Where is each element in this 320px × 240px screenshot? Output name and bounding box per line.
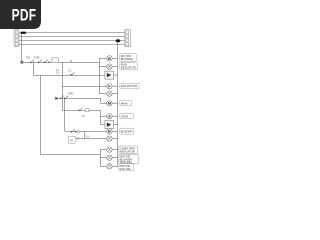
svg-text:TB1: TB1 (26, 58, 31, 60)
svg-text:INDICATOR: INDICATOR (121, 66, 136, 70)
svg-text:BLOWER: BLOWER (121, 57, 133, 61)
svg-text:FAN MOTOR: FAN MOTOR (121, 84, 138, 88)
svg-text:MAIN: MAIN (121, 101, 128, 105)
svg-text:TVR2: TVR2 (34, 58, 41, 60)
svg-text:BUZZER: BUZZER (121, 130, 132, 134)
svg-text:PDF: PDF (12, 7, 37, 25)
svg-text:TVR2: TVR2 (68, 94, 75, 96)
svg-text:B: B (108, 57, 111, 61)
svg-text:S: S (108, 115, 111, 119)
svg-text:STAR: STAR (121, 114, 128, 118)
svg-text:INDICATOR: INDICATOR (120, 150, 135, 154)
svg-text:B: B (108, 130, 111, 134)
svg-text:FAN IND: FAN IND (120, 167, 131, 171)
svg-text:R: R (70, 59, 72, 63)
svg-text:M: M (108, 102, 111, 106)
